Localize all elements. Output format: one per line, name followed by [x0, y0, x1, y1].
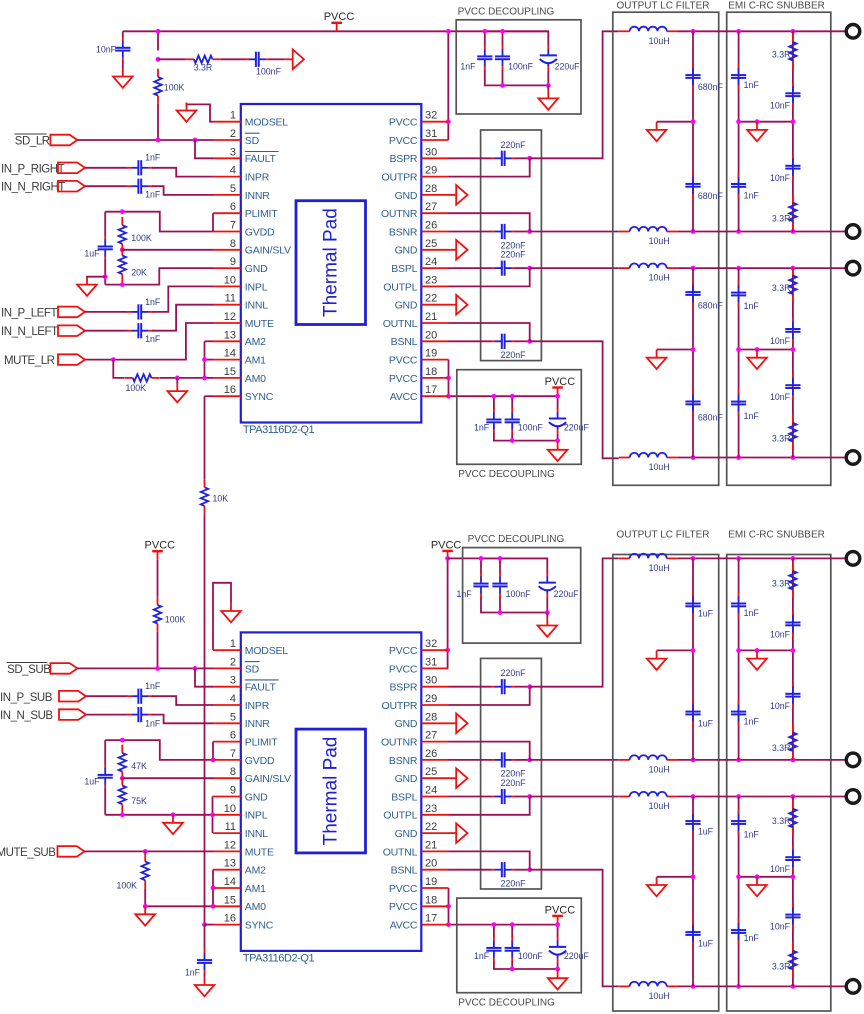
power flag PVCC deco2 — [545, 376, 576, 396]
wire PVCC top rail — [123, 30, 549, 32]
wire GAIN/SLV2 pin 8 — [122, 777, 213, 779]
wire GAIN/SLV pin 8 — [122, 249, 213, 251]
svg-text:7: 7 — [230, 748, 236, 760]
junction snubber mid left A.2 — [736, 347, 741, 352]
wire 1uF top — [104, 212, 106, 236]
svg-text:10uH: 10uH — [649, 563, 670, 573]
junction PVCC2 pin 18 — [446, 904, 451, 909]
junction AM2 ground — [143, 904, 148, 909]
svg-text:23: 23 — [425, 274, 437, 286]
junction snubber rc A.2 — [791, 229, 796, 234]
junction filter cap top B.2 — [691, 758, 696, 763]
wire deco2 bottom rail — [494, 433, 558, 441]
svg-text:PVCC: PVCC — [431, 539, 462, 551]
svg-text:11: 11 — [225, 293, 236, 305]
svg-text:SD: SD — [245, 663, 260, 675]
wire filter cap column B.1 — [692, 558, 694, 760]
junction bootstrap node B.4 — [527, 867, 532, 872]
svg-text:14: 14 — [224, 348, 236, 360]
svg-text:AM1: AM1 — [245, 355, 266, 367]
U1 pin 8 GAIN/SLV — [213, 238, 291, 257]
svg-text:10nF: 10nF — [770, 701, 791, 711]
junction bootstrap node A.3 — [527, 266, 532, 271]
wire OUTPL to filter B — [530, 796, 619, 798]
svg-text:PVCC: PVCC — [389, 355, 418, 367]
resistor 3.3R snubber B.3 — [789, 801, 796, 836]
svg-text:EMI C-RC SNUBBER: EMI C-RC SNUBBER — [728, 530, 825, 541]
wire PLIMIT to GVDD tie — [212, 213, 214, 231]
junction bootstrap node B.2 — [527, 758, 532, 763]
svg-text:14: 14 — [224, 876, 236, 888]
svg-text:220nF: 220nF — [501, 879, 527, 889]
svg-text:26: 26 — [425, 220, 437, 232]
capacitor 10nF snubber A.1 — [785, 82, 800, 108]
junction AVCC pin 17 — [446, 394, 451, 399]
svg-text:GAIN/SLV: GAIN/SLV — [245, 245, 291, 257]
svg-text:24: 24 — [425, 256, 437, 268]
capacitor 220nF bootstrap A.2 — [490, 224, 516, 239]
U2 pin 12 MUTE — [213, 839, 274, 858]
svg-text:30: 30 — [425, 146, 437, 158]
junction GVDD2 pin — [211, 758, 216, 763]
svg-text:31: 31 — [425, 128, 437, 140]
ground snubber A.2 — [747, 350, 767, 369]
junction bootstrap node B.3 — [527, 794, 532, 799]
junction snubber 1nF B.1 — [736, 556, 741, 561]
junction SD 100K — [156, 138, 161, 143]
svg-text:47K: 47K — [131, 761, 147, 771]
U2 pin 19 PVCC — [389, 876, 449, 895]
wire MODSEL2 to ground hook — [213, 583, 231, 650]
wire decoupling bottom rail 1 — [485, 70, 549, 85]
ground at GND pin B — [448, 768, 467, 788]
U2 pin 30 BSPR — [390, 675, 449, 694]
svg-text:SD_SUB: SD_SUB — [7, 664, 51, 676]
svg-text:AM0: AM0 — [245, 901, 266, 913]
U1 pin 12 MUTE — [213, 311, 274, 330]
svg-text:10uH: 10uH — [649, 273, 670, 283]
wire 1nF drop 3 — [480, 558, 482, 572]
capacitor 10nF — [115, 36, 130, 62]
svg-text:10uH: 10uH — [649, 462, 670, 472]
svg-text:GVDD: GVDD — [245, 755, 275, 767]
PVCC DECOUPLING box 4 — [457, 898, 582, 993]
svg-text:10uH: 10uH — [649, 801, 670, 811]
svg-text:29: 29 — [425, 165, 437, 177]
output terminal B.4 — [846, 980, 860, 994]
wire snubber rc column A.2 — [792, 268, 794, 457]
wire bootstrap cap to node A.2 — [516, 231, 530, 233]
capacitor 680nF filter A.1 — [685, 64, 700, 90]
svg-text:IN_P_RIGHT: IN_P_RIGHT — [1, 163, 65, 175]
capacitor 1nF snubber B.2 — [731, 700, 746, 726]
junction bootstrap node A.1 — [527, 156, 532, 161]
ground at GND pin B — [448, 823, 467, 843]
resistor 10K sync link — [201, 479, 208, 514]
PVCC DECOUPLING box 1 — [456, 20, 581, 114]
svg-text:1uF: 1uF — [698, 719, 714, 729]
wire pin to bootstrap cap A.4 — [449, 340, 491, 342]
capacitor 220nF bootstrap B.2 — [490, 752, 516, 767]
junction deco2 c — [555, 394, 560, 399]
U1 pin 4 INPR — [213, 165, 270, 184]
svg-text:SD: SD — [245, 135, 260, 147]
junction snubber mid right A.2 — [791, 347, 796, 352]
resistor 100K pulldown sub — [142, 853, 149, 888]
svg-text:INNR: INNR — [245, 718, 270, 730]
capacitor 1nF input INPR — [127, 160, 153, 175]
capacitor 220nF bootstrap B.1 — [490, 679, 516, 694]
U2 pin 23 OUTPL — [383, 803, 448, 822]
wire bracket pin 9 — [212, 796, 215, 798]
svg-text:PVCC: PVCC — [389, 901, 418, 913]
svg-text:10nF: 10nF — [770, 392, 791, 402]
svg-text:SYNC: SYNC — [245, 391, 274, 403]
input connector IN_N_SUB — [59, 709, 86, 720]
svg-text:1nF: 1nF — [460, 62, 476, 72]
ground snubber A.1 — [747, 122, 767, 141]
wire deco3 top rail — [448, 557, 548, 559]
U2 pin 32 PVCC — [389, 638, 449, 657]
U1 pin 5 INNR — [213, 183, 270, 202]
svg-text:4: 4 — [230, 693, 236, 705]
resistor 100K gain divider — [119, 217, 126, 252]
svg-text:21: 21 — [425, 311, 437, 323]
ground sync — [195, 977, 215, 996]
capacitor 100nF — [244, 52, 270, 67]
wire PVCC drop to pins 32 31 — [447, 31, 449, 140]
svg-text:AM2: AM2 — [245, 865, 266, 877]
ground MODSEL — [177, 103, 197, 122]
U2 pin 21 OUTNL — [383, 839, 449, 858]
svg-text:9: 9 — [230, 256, 236, 268]
wire to 100K pulldown sub — [144, 851, 146, 853]
U1 pin 9 GND — [213, 256, 268, 275]
ground decoupling 1 — [539, 90, 559, 109]
wire snubber 1nF column B.1 — [738, 558, 740, 760]
OUTPUT LC FILTER box A — [613, 12, 719, 485]
junction filter cap top B.3 — [691, 794, 696, 799]
junction snubber rc B.3 — [791, 794, 796, 799]
svg-text:100K: 100K — [116, 880, 137, 890]
capacitor 220nF bootstrap A.4 — [490, 334, 516, 349]
junction snubber 1nF A.3 — [736, 266, 741, 271]
junction snubber 1nF A.1 — [736, 29, 741, 34]
svg-text:220nF: 220nF — [501, 778, 527, 788]
wire deco4 100nF bottom — [511, 962, 513, 970]
wire filter cap column B.2 — [692, 797, 694, 987]
wire filter ground hook B.2 — [657, 876, 693, 878]
junction bootstrap node A.2 — [527, 229, 532, 234]
svg-text:1uF: 1uF — [698, 827, 714, 837]
resistor 20K — [119, 247, 126, 282]
PVCC DECOUPLING box 3 — [463, 548, 581, 644]
wire AM ground stem — [176, 378, 178, 384]
svg-text:GND: GND — [395, 300, 418, 312]
junction filter cap top B.4 — [691, 984, 696, 989]
wire to 10nF — [122, 31, 124, 37]
svg-text:22: 22 — [425, 293, 437, 305]
input connector IN_N_LEFT — [58, 325, 85, 336]
power flag PVCC deco4 — [545, 904, 576, 924]
junction deco 1.a — [482, 29, 487, 34]
svg-text:15: 15 — [224, 894, 236, 906]
svg-text:17: 17 — [425, 913, 437, 925]
svg-text:5: 5 — [230, 711, 236, 723]
capacitor 10nF snubber A.4 — [785, 374, 800, 400]
wire 220uF bottom 3 — [546, 598, 548, 613]
capacitor 100nF decoupling 4 — [505, 936, 520, 962]
inductor 10uH A.2 — [619, 227, 677, 232]
wire snubber mid rail A.2 — [739, 349, 793, 351]
svg-text:IN_P_SUB: IN_P_SUB — [0, 692, 53, 704]
svg-text:BSNL: BSNL — [391, 865, 418, 877]
junction snubber mid gnd B.1 — [755, 648, 760, 653]
svg-text:OUTNL: OUTNL — [383, 318, 418, 330]
wire 100K to SD sub — [157, 632, 159, 669]
wire cap to ground sync — [204, 974, 206, 977]
capacitor 100nF decoupling 1 — [495, 45, 510, 71]
junction divider2 bottom — [120, 812, 125, 817]
input connector IN_P_SUB — [59, 691, 86, 702]
resistor 75K — [119, 777, 126, 812]
wire 100K to SD — [157, 104, 159, 140]
wire IN_N_LEFT to cap — [85, 330, 128, 332]
wire MUTE_LR to pin 12 — [85, 323, 213, 360]
junction PVCC rail drop — [446, 29, 451, 34]
svg-text:12: 12 — [224, 311, 236, 323]
wire SYNC2 pin 16 — [205, 924, 214, 926]
capacitor 10nF snubber B.4 — [785, 903, 800, 929]
svg-text:100nF: 100nF — [256, 66, 282, 76]
svg-text:BSPR: BSPR — [390, 682, 418, 694]
svg-text:PVCC: PVCC — [324, 11, 355, 23]
svg-text:26: 26 — [425, 748, 437, 760]
svg-text:3.3R: 3.3R — [772, 49, 791, 59]
junction AM1 — [202, 357, 207, 362]
svg-text:1nF: 1nF — [457, 589, 473, 599]
U2 pin 18 PVCC — [389, 894, 449, 913]
wire deco4 drop 493.9 — [493, 925, 495, 938]
U2 pin 15 AM0 — [213, 894, 266, 913]
capacitor 1uF filter B.4 — [685, 921, 700, 947]
wire 1uF2 bottom — [104, 789, 106, 815]
junction snubber rc A.1 — [791, 29, 796, 34]
U1 pin 19 PVCC — [389, 348, 449, 367]
svg-text:10nF: 10nF — [770, 864, 791, 874]
svg-text:TPA3116D2-Q1: TPA3116D2-Q1 — [243, 424, 315, 436]
junction PVCC pin 32 — [446, 119, 451, 124]
junction deco4 bottom c — [555, 967, 560, 972]
svg-text:1: 1 — [230, 110, 236, 122]
output terminal A.4 — [846, 451, 860, 465]
wire OUTPL to BSPL node B — [449, 797, 530, 815]
svg-text:10K: 10K — [213, 494, 229, 504]
junction bracket INPL — [210, 812, 215, 817]
wire pin to bootstrap cap A.1 — [449, 157, 491, 159]
svg-text:1nF: 1nF — [145, 681, 161, 691]
wire AM bracket — [204, 341, 206, 378]
svg-text:PVCC DECOUPLING: PVCC DECOUPLING — [458, 469, 555, 480]
ground filter B.2 — [647, 877, 667, 896]
svg-text:INPL: INPL — [245, 810, 268, 822]
svg-text:12: 12 — [224, 839, 236, 851]
wire output row B.4 — [677, 985, 846, 987]
ground AM sub — [135, 906, 155, 925]
capacitor 1nF input INNR — [127, 179, 153, 194]
capacitor 1nF input INPL — [127, 304, 153, 319]
resistor 3.3R snubber A.4 — [789, 415, 796, 450]
capacitor 1nF snubber A.1 — [731, 64, 746, 90]
capacitor 220nF bootstrap B.4 — [490, 862, 516, 877]
svg-text:28: 28 — [425, 183, 437, 195]
svg-text:PVCC: PVCC — [389, 663, 418, 675]
U1 pin 25 GND — [395, 238, 449, 257]
svg-text:PVCC: PVCC — [545, 904, 576, 916]
junction MUTE 100K — [111, 357, 116, 362]
U2 pin 28 GND — [395, 711, 449, 730]
svg-text:17: 17 — [425, 384, 437, 396]
output terminal B.1 — [846, 552, 860, 566]
U1 pin 14 AM1 — [213, 348, 266, 367]
svg-text:PLIMIT: PLIMIT — [245, 737, 278, 749]
svg-text:BSNL: BSNL — [391, 336, 418, 348]
U1 pin 3 FAULT — [213, 146, 279, 165]
svg-text:3.3R: 3.3R — [772, 283, 791, 293]
wire output row B.2 — [677, 759, 846, 761]
wire snubber mid rail B.2 — [739, 876, 793, 878]
svg-text:PVCC DECOUPLING: PVCC DECOUPLING — [458, 998, 555, 1009]
wire PVCC pins 19 18 drop — [448, 360, 450, 397]
wire OUTPL to filter A — [530, 267, 619, 269]
capacitor 220nF bootstrap A.3 — [490, 261, 516, 276]
wire jog to ground — [87, 277, 105, 278]
svg-text:25: 25 — [425, 238, 437, 250]
svg-text:Thermal Pad: Thermal Pad — [320, 208, 341, 317]
wire OUTNR to BSNR node A — [449, 213, 530, 231]
wire deco2 100nF bottom — [511, 433, 513, 441]
svg-text:100K: 100K — [126, 383, 147, 393]
svg-text:AM0: AM0 — [245, 373, 266, 385]
wire filter ground hook B.1 — [657, 649, 693, 651]
svg-text:MUTE_SUB: MUTE_SUB — [0, 847, 56, 859]
resistor 3.3R snubber A.3 — [789, 267, 796, 302]
svg-text:GND: GND — [395, 190, 418, 202]
junction snubber mid gnd A.1 — [755, 119, 760, 124]
wire cap to INPR pin 4 — [152, 168, 213, 177]
capacitor 220uF decoupling 2 — [549, 408, 566, 434]
U1 pin 26 BSNR — [389, 220, 449, 239]
junction filter mid A.2 — [691, 347, 696, 352]
svg-text:1nF: 1nF — [145, 297, 161, 307]
wire GND2 rail — [105, 814, 212, 816]
OUTPUT LC FILTER box B — [613, 555, 719, 1012]
wire SD_SUB to pin 2 — [77, 667, 213, 669]
ground filter B.1 — [647, 651, 667, 670]
capacitor 220uF decoupling 4 — [549, 936, 566, 962]
wire snubber 1nF column B.2 — [738, 797, 740, 987]
wire bootstrap cap to node B.4 — [516, 869, 530, 871]
junction deco4 c — [555, 922, 560, 927]
svg-text:10nF: 10nF — [770, 173, 791, 183]
svg-text:10: 10 — [224, 274, 236, 286]
junction filter mid A.1 — [691, 119, 696, 124]
junction bootstrap node A.4 — [527, 339, 532, 344]
svg-text:16: 16 — [224, 913, 236, 925]
ground divider2 — [163, 815, 183, 834]
capacitor 10nF snubber B.2 — [785, 682, 800, 708]
wire snubber mid rail A.1 — [739, 121, 793, 123]
wire SYNC2 to cap — [204, 925, 206, 950]
junction filter cap top A.3 — [691, 266, 696, 271]
U2 pin 22 GND — [395, 821, 449, 840]
wire OUTNL to BSNL node A — [449, 323, 530, 341]
ground at GND pin A — [448, 240, 467, 260]
svg-text:PVCC: PVCC — [389, 645, 418, 657]
svg-text:10nF: 10nF — [96, 45, 117, 55]
svg-text:15: 15 — [224, 366, 236, 378]
svg-text:19: 19 — [425, 348, 437, 360]
power flag PVCC top — [324, 11, 355, 31]
svg-text:21: 21 — [425, 839, 437, 851]
wire PVCC2 pins 19 18 drop — [448, 888, 450, 925]
wire output row A.3 — [677, 267, 846, 269]
svg-text:8: 8 — [230, 766, 236, 778]
junction filter mid B.2 — [691, 874, 696, 879]
wire output row A.4 — [677, 457, 846, 459]
svg-text:GND: GND — [395, 773, 418, 785]
wire cap to INNR2 pin 5 — [152, 715, 213, 724]
svg-text:1nF: 1nF — [744, 830, 760, 840]
junction SD2 FAULT — [193, 666, 198, 671]
svg-text:AVCC: AVCC — [390, 920, 418, 932]
junction snubber 1nF B.2 — [736, 758, 741, 763]
wire bootstrap cap to node A.3 — [516, 267, 530, 269]
svg-text:25: 25 — [425, 766, 437, 778]
U2 pin 6 PLIMIT — [213, 730, 278, 749]
U1 pin 7 GVDD — [213, 220, 275, 239]
junction divider bottom — [120, 282, 125, 287]
wire pin to bootstrap cap A.2 — [449, 231, 491, 233]
U1 pin 17 AVCC — [390, 384, 449, 403]
op-amp U1 TPA3116D2-Q1 body — [241, 104, 421, 423]
capacitor 100nF decoupling 2 — [505, 408, 520, 434]
wire snubber 1nF column A.2 — [738, 268, 740, 457]
svg-text:AM2: AM2 — [245, 336, 266, 348]
svg-text:3: 3 — [230, 146, 236, 158]
PVCC DECOUPLING box 2 — [457, 370, 582, 465]
svg-text:MUTE_LR: MUTE_LR — [4, 355, 55, 367]
svg-text:22: 22 — [425, 821, 437, 833]
svg-text:1uF: 1uF — [84, 248, 100, 258]
U2 pin 27 OUTNR — [381, 730, 449, 749]
wire pin to bootstrap cap B.3 — [449, 796, 491, 798]
svg-text:3.3R: 3.3R — [772, 213, 791, 223]
svg-text:PVCC: PVCC — [389, 883, 418, 895]
wire AM2 pin 13 — [205, 340, 214, 342]
svg-text:10uH: 10uH — [649, 765, 670, 775]
capacitor 1uF filter B.3 — [685, 810, 700, 836]
output terminal B.2 — [846, 753, 860, 767]
U2 pin 25 GND — [395, 766, 449, 785]
wire to ground 3 — [546, 613, 548, 618]
svg-text:220uF: 220uF — [564, 951, 590, 961]
wire SYNC pin 16 — [205, 395, 214, 397]
junction deco2 a — [492, 394, 497, 399]
svg-text:PVCC: PVCC — [545, 376, 576, 388]
U2 pin 2 SD — [213, 656, 260, 675]
junction snubber 1nF A.4 — [736, 455, 741, 460]
